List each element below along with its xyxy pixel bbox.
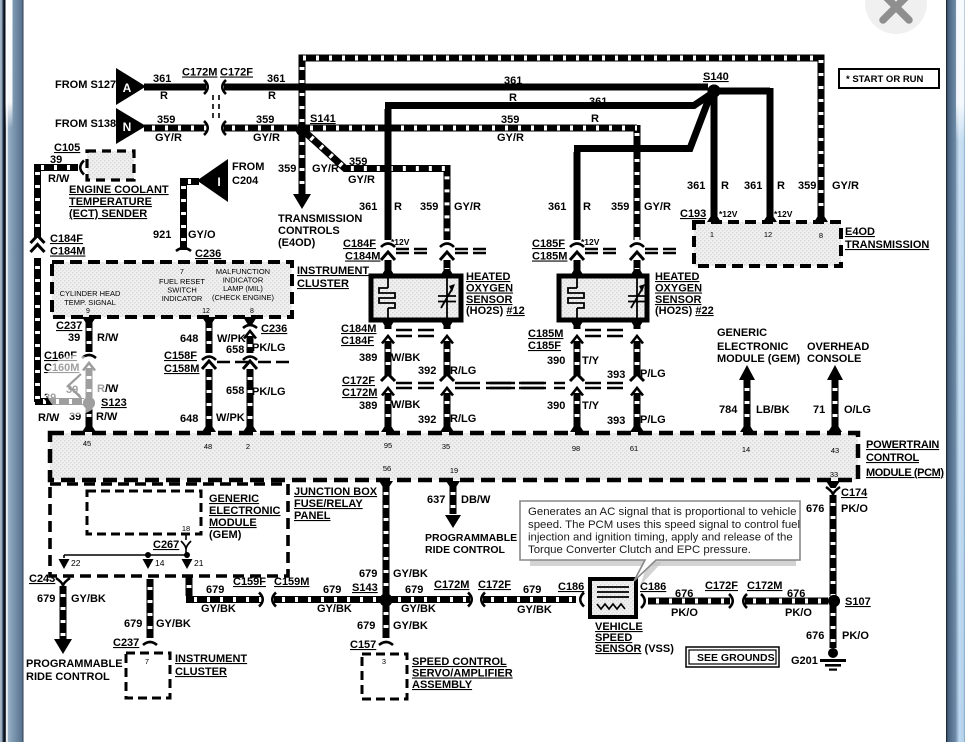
INSTRUMENT CLUSTER box — [52, 262, 292, 317]
svg-text:39: 39 — [50, 154, 62, 166]
svg-text:R: R — [591, 113, 599, 125]
svg-text:9: 9 — [86, 308, 90, 315]
wire 361 R from C172F to node S140 — [224, 84, 708, 91]
svg-text:C184M: C184M — [50, 246, 85, 258]
E4OD transmission connector flares — [707, 215, 721, 222]
close button — [865, 0, 927, 34]
svg-text:R: R — [721, 180, 729, 192]
svg-text:658: 658 — [226, 385, 244, 397]
arrow to pin 14 — [143, 559, 154, 569]
node S140 — [708, 85, 721, 98]
wire 637 DB/W from PCM pin 19 to programmable ride control — [446, 481, 460, 488]
svg-text:O/LG: O/LG — [844, 404, 871, 416]
svg-text:TRANSMISSION: TRANSMISSION — [845, 239, 929, 251]
svg-text:45: 45 — [83, 439, 91, 448]
svg-text:FUSE/RELAY: FUSE/RELAY — [294, 498, 363, 510]
connector C159F/C159M break — [259, 593, 263, 607]
connector C172M/C172F inline break (top) — [204, 80, 208, 94]
svg-text:C172M: C172M — [342, 387, 377, 399]
node S107 — [828, 595, 840, 607]
svg-text:R/W: R/W — [38, 412, 60, 424]
svg-text:R: R — [268, 90, 276, 102]
svg-text:361: 361 — [504, 75, 522, 87]
svg-text:CLUSTER: CLUSTER — [297, 278, 349, 290]
svg-text:R: R — [583, 201, 591, 213]
svg-text:FROM: FROM — [232, 161, 264, 173]
wire 658 PK/LG from C158M to PCM pin 2 — [247, 369, 254, 429]
svg-text:C237: C237 — [113, 637, 139, 649]
svg-text:Generates an AC signal that is: Generates an AC signal that is proportio… — [528, 506, 796, 518]
svg-text:R/W: R/W — [48, 173, 70, 185]
wire 679 GY/BK from junction box pin 21 to C159 break — [186, 577, 261, 600]
svg-text:I: I — [217, 175, 220, 189]
wire 679 GY/BK from S143 to C172 break — [390, 596, 470, 603]
svg-text:648: 648 — [180, 413, 198, 425]
svg-text:389: 389 — [359, 400, 377, 412]
svg-text:C236: C236 — [195, 248, 221, 260]
svg-text:S143: S143 — [352, 582, 378, 594]
svg-text:speed. The PCM uses this speed: speed. The PCM uses this speed signal to… — [528, 519, 800, 531]
svg-text:MODULE (GEM): MODULE (GEM) — [717, 353, 800, 365]
svg-text:GY/BK: GY/BK — [201, 603, 236, 615]
callout shadow — [530, 558, 796, 566]
svg-text:S141: S141 — [310, 113, 336, 125]
svg-text:C267: C267 — [153, 539, 179, 551]
svg-text:DB/W: DB/W — [461, 494, 491, 506]
svg-text:679: 679 — [124, 618, 142, 630]
connector C172F/C172M breaks on sensor 12 wires — [381, 374, 395, 381]
svg-text:C184M: C184M — [345, 251, 380, 263]
svg-text:FROM S138: FROM S138 — [55, 118, 116, 130]
svg-text:39: 39 — [68, 332, 80, 344]
POWERTRAIN CONTROL MODULE (PCM) box — [50, 433, 858, 480]
svg-text:*12V: *12V — [719, 209, 738, 219]
wire 676 PK/O from PCM pin 33 down to S107 — [826, 481, 840, 488]
svg-text:361: 361 — [359, 201, 377, 213]
svg-text:C158F: C158F — [164, 350, 197, 362]
svg-text:FROM S127: FROM S127 — [55, 79, 116, 91]
svg-text:676: 676 — [806, 630, 824, 642]
wire 921 GY/O from triangle I down to C236 — [184, 178, 200, 250]
wire 658 PK/LG from IC pin 8 through C236 break — [243, 317, 257, 324]
svg-text:359: 359 — [420, 201, 438, 213]
svg-text:390: 390 — [547, 400, 565, 412]
wire 390 T/Y and 393 P/LG lower segments to PCM — [574, 393, 581, 429]
svg-text:48: 48 — [204, 442, 212, 451]
svg-text:TEMPERATURE: TEMPERATURE — [69, 196, 152, 208]
watermark circle overlay — [45, 355, 105, 415]
svg-text:SPEED CONTROL: SPEED CONTROL — [412, 656, 507, 668]
svg-text:7: 7 — [180, 269, 184, 276]
connector C160F/C160M break — [82, 355, 96, 358]
connector C172 break on 359 wire — [204, 121, 208, 135]
svg-text:S140: S140 — [703, 71, 729, 83]
wire 679 GY/BK S143 down to C157 — [383, 604, 390, 638]
node S123 dot — [83, 397, 95, 409]
svg-text:GY/BK: GY/BK — [517, 604, 552, 616]
svg-text:GY/R: GY/R — [497, 132, 524, 144]
svg-text:921: 921 — [153, 229, 171, 241]
svg-text:679: 679 — [323, 584, 341, 596]
svg-text:GY/R: GY/R — [155, 132, 182, 144]
svg-text:JUNCTION BOX: JUNCTION BOX — [294, 486, 378, 498]
svg-text:679: 679 — [357, 620, 375, 632]
svg-text:679: 679 — [359, 568, 377, 580]
svg-text:C174: C174 — [841, 487, 868, 499]
svg-text:R/LG: R/LG — [450, 365, 476, 377]
svg-text:12: 12 — [202, 308, 210, 315]
svg-text:C159F: C159F — [233, 576, 266, 588]
svg-text:GY/R: GY/R — [312, 163, 339, 175]
svg-text:*12V: *12V — [774, 209, 793, 219]
svg-text:359: 359 — [278, 163, 296, 175]
connector C267 — [185, 534, 187, 540]
svg-text:PK/LG: PK/LG — [252, 386, 286, 398]
svg-text:GY/BK: GY/BK — [393, 620, 428, 632]
SEE GROUNDS legend box — [686, 647, 779, 667]
svg-text:14: 14 — [742, 445, 750, 454]
wire 361 R from S140 right then down to E4OD pin 12 — [717, 88, 770, 220]
svg-text:PANEL: PANEL — [294, 510, 331, 522]
svg-text:GY/BK: GY/BK — [71, 593, 106, 605]
connector C172F/C172M break (right) — [729, 594, 733, 608]
svg-text:679: 679 — [206, 584, 224, 596]
wire 679 GY/BK from C159M to node S143 — [274, 596, 381, 603]
svg-text:98: 98 — [572, 444, 580, 453]
svg-text:HEATED: HEATED — [655, 271, 699, 283]
wire 39 R/W from ECT sender left down (C105) — [38, 164, 79, 237]
svg-text:P/LG: P/LG — [640, 414, 666, 426]
svg-text:393: 393 — [607, 369, 625, 381]
svg-text:C184F: C184F — [50, 233, 83, 245]
svg-text:SENSOR (VSS): SENSOR (VSS) — [595, 643, 674, 655]
node S141 — [296, 124, 308, 136]
triangle connector I (FROM C204) — [197, 159, 228, 202]
svg-text:56: 56 — [383, 464, 391, 473]
svg-text:679: 679 — [523, 584, 541, 596]
wire 359 GY/R diagonal from S141 to HO2S12 branch — [305, 132, 447, 240]
svg-text:PROGRAMMABLE: PROGRAMMABLE — [425, 532, 517, 544]
svg-text:INSTRUMENT: INSTRUMENT — [297, 265, 369, 277]
node S107 dot — [828, 595, 840, 607]
svg-text:RIDE CONTROL: RIDE CONTROL — [425, 544, 506, 556]
thin bus wire inside junction box — [64, 549, 188, 558]
node S143 — [380, 594, 393, 607]
connector C185F/C185M breaks above HO2S22 — [570, 244, 616, 261]
svg-text:C204: C204 — [232, 175, 259, 187]
HO2S22 heater element symbol — [568, 278, 584, 318]
svg-text:OXYGEN: OXYGEN — [655, 283, 702, 295]
svg-text:R: R — [777, 180, 785, 192]
svg-text:PROGRAMMABLE: PROGRAMMABLE — [26, 658, 123, 670]
wire 359 GY/R from C172F through node S141 to corner x637 then down to C185 — [224, 125, 637, 240]
wire 359 GY/R from N to C172 break — [144, 125, 206, 132]
svg-text:Torque Converter Clutch and EP: Torque Converter Clutch and EPC pressure… — [528, 544, 751, 556]
svg-text:GY/R: GY/R — [454, 201, 481, 213]
svg-text:R/W: R/W — [97, 332, 119, 344]
START OR RUN legend box — [839, 69, 939, 88]
svg-text:T/Y: T/Y — [582, 400, 600, 412]
wire 361 R from A to C172 break — [144, 84, 206, 91]
svg-text:PK/O: PK/O — [841, 503, 868, 515]
svg-text:S123: S123 — [101, 397, 127, 409]
JUNCTION BOX FUSE/RELAY PANEL box — [50, 484, 288, 576]
svg-text:C159M: C159M — [274, 576, 309, 588]
svg-text:33: 33 — [830, 470, 838, 479]
connector C172 breaks on sensor 22 wires — [570, 374, 584, 381]
svg-text:ENGINE COOLANT: ENGINE COOLANT — [69, 184, 169, 196]
svg-text:GY/O: GY/O — [188, 229, 216, 241]
svg-text:W/BK: W/BK — [391, 399, 420, 411]
svg-text:GY/BK: GY/BK — [317, 603, 352, 615]
svg-text:(GEM): (GEM) — [209, 529, 242, 541]
ground G201 symbol — [828, 648, 838, 658]
wire 359 GY/R drop below S141 to transmission controls arrow — [299, 134, 306, 194]
svg-text:GY/BK: GY/BK — [401, 603, 436, 615]
HO2S12 sensor element symbol — [438, 278, 456, 318]
svg-text:GY/R: GY/R — [253, 132, 280, 144]
svg-text:658: 658 — [226, 344, 244, 356]
svg-text:TEMP. SIGNAL: TEMP. SIGNAL — [64, 298, 116, 307]
svg-text:21: 21 — [194, 558, 204, 568]
page right edge strip — [946, 0, 965, 742]
connector C243 — [56, 578, 70, 586]
svg-text:3: 3 — [382, 657, 386, 666]
svg-text:C186: C186 — [558, 581, 584, 593]
svg-text:8: 8 — [819, 231, 823, 240]
svg-text:*12V: *12V — [391, 237, 410, 247]
svg-text:G201: G201 — [791, 655, 818, 667]
svg-text:HEATED: HEATED — [466, 271, 510, 283]
svg-text:71: 71 — [813, 404, 825, 416]
svg-text:(CHECK ENGINE): (CHECK ENGINE) — [212, 293, 275, 302]
svg-text:359: 359 — [798, 180, 816, 192]
svg-text:359: 359 — [501, 114, 519, 126]
svg-text:P/LG: P/LG — [640, 368, 666, 380]
wire 679 GY/BK to instrument cluster pin 7 — [147, 579, 154, 638]
wire 389 W/BK and 392 R/LG upper segments — [385, 341, 392, 377]
svg-text:361: 361 — [687, 180, 705, 192]
wire 676 PK/O from C172M to node S107 — [745, 598, 828, 605]
svg-text:392: 392 — [418, 365, 436, 377]
svg-text:OVERHEAD: OVERHEAD — [807, 341, 869, 353]
svg-text:PK/LG: PK/LG — [252, 342, 286, 354]
svg-text:(HO2S) #22: (HO2S) #22 — [655, 305, 714, 317]
svg-text:95: 95 — [384, 441, 392, 450]
junction dots on bus — [145, 552, 151, 558]
svg-text:GENERIC: GENERIC — [717, 327, 767, 339]
svg-text:648: 648 — [180, 333, 198, 345]
wire 679 GY/BK to programmable ride control (left) — [60, 586, 67, 639]
svg-text:12: 12 — [764, 230, 772, 239]
wire 679 GY/BK from PCM pin 56 to S143 — [379, 481, 393, 488]
svg-text:OXYGEN: OXYGEN — [466, 283, 513, 295]
svg-text:C172F: C172F — [342, 375, 375, 387]
node S140 dot — [708, 85, 721, 98]
svg-text:C172M: C172M — [434, 579, 469, 591]
E4OD TRANSMISSION box — [694, 222, 841, 266]
wire 71 O/LG to overhead console — [827, 365, 843, 380]
vehicle speed sensor VSS box — [590, 579, 636, 617]
wire 784 LB/BK to GEM — [739, 365, 755, 380]
callout box with VSS description — [520, 501, 800, 581]
svg-text:361: 361 — [589, 96, 607, 108]
triangle connector A (FROM S127) — [116, 68, 146, 105]
svg-text:C185F: C185F — [528, 340, 561, 352]
arrow to pin 21 — [182, 559, 193, 569]
svg-text:676: 676 — [806, 503, 824, 515]
svg-text:(ECT) SENDER: (ECT) SENDER — [69, 208, 147, 220]
svg-text:(HO2S) #12: (HO2S) #12 — [466, 305, 525, 317]
svg-text:T/Y: T/Y — [582, 355, 600, 367]
svg-text:C172F: C172F — [220, 67, 253, 79]
svg-text:GY/R: GY/R — [832, 180, 859, 192]
svg-text:MODULE (PCM): MODULE (PCM) — [866, 467, 944, 479]
svg-text:MODULE: MODULE — [209, 517, 257, 529]
svg-text:INDICATOR: INDICATOR — [162, 294, 203, 303]
GEM inner box — [87, 491, 201, 534]
svg-text:POWERTRAIN: POWERTRAIN — [866, 439, 939, 451]
svg-text:TRANSMISSION: TRANSMISSION — [278, 213, 362, 225]
svg-text:676: 676 — [675, 588, 693, 600]
svg-text:C184F: C184F — [343, 238, 376, 250]
wire 361 R from S140 down to E4OD pin 1 — [711, 94, 718, 220]
svg-text:C157: C157 — [350, 639, 376, 651]
svg-text:PK/O: PK/O — [842, 630, 869, 642]
wire 389 W/BK and 392 R/LG lower segments to PCM — [385, 393, 392, 429]
svg-text:* START OR RUN: * START OR RUN — [846, 74, 924, 85]
node S123 — [83, 397, 95, 409]
svg-text:389: 389 — [359, 352, 377, 364]
svg-text:*12V: *12V — [581, 237, 600, 247]
svg-text:SERVO/AMPLIFIER: SERVO/AMPLIFIER — [412, 668, 513, 680]
svg-text:C243: C243 — [29, 573, 55, 585]
svg-text:C185M: C185M — [528, 328, 563, 340]
svg-text:C172F: C172F — [478, 579, 511, 591]
svg-text:SEE GROUNDS: SEE GROUNDS — [697, 652, 775, 664]
svg-text:390: 390 — [547, 355, 565, 367]
svg-text:injection and ignition timing,: injection and ignition timing, apply and… — [528, 532, 793, 544]
svg-text:61: 61 — [630, 444, 638, 453]
svg-text:2: 2 — [246, 442, 250, 451]
svg-text:359: 359 — [349, 156, 367, 168]
arrow to pin 22 — [59, 559, 70, 569]
node S141 dot — [296, 124, 308, 136]
svg-text:C172F: C172F — [705, 580, 738, 592]
svg-text:ELECTRONIC: ELECTRONIC — [209, 505, 281, 517]
wire 39 R/W from IC pin 9 to C160 break — [82, 317, 96, 324]
svg-text:A: A — [123, 81, 132, 95]
svg-text:C105: C105 — [54, 142, 80, 154]
HO2S22 sensor element symbol — [628, 278, 646, 318]
instrument cluster small box — [126, 653, 170, 698]
svg-text:C172M: C172M — [747, 580, 782, 592]
wire stubs into HO2S22 top — [574, 260, 581, 274]
svg-text:R/LG: R/LG — [450, 413, 476, 425]
svg-text:R/W: R/W — [96, 411, 118, 423]
wire 39 R/W from C160M to node S123 — [83, 363, 95, 371]
wires below HO2S22 and C185M/C185F breaks — [570, 320, 584, 327]
svg-text:14: 14 — [155, 558, 165, 568]
svg-text:E4OD: E4OD — [845, 226, 875, 238]
svg-text:W/BK: W/BK — [391, 352, 420, 364]
svg-text:637: 637 — [427, 494, 445, 506]
wire 648 W/PK from IC pin 12 to C158 break — [202, 317, 216, 324]
svg-text:C237: C237 — [56, 320, 82, 332]
svg-text:GY/R: GY/R — [644, 201, 671, 213]
svg-text:C186: C186 — [640, 581, 666, 593]
connector C172M/C172F break (bottom) — [468, 593, 472, 607]
svg-text:C158M: C158M — [164, 363, 199, 375]
connector C158F/C158M break on 648 wire — [202, 357, 248, 370]
node S143 dot — [380, 594, 393, 607]
svg-text:RIDE CONTROL: RIDE CONTROL — [26, 671, 110, 683]
svg-text:N: N — [123, 120, 132, 134]
wire 361 R branch to HO2S22 (corner x577 y148 to S140) — [574, 96, 710, 240]
svg-text:CYLINDER HEAD: CYLINDER HEAD — [60, 289, 121, 298]
HO2S12 heater element symbol — [379, 278, 395, 318]
svg-text:ASSEMBLY: ASSEMBLY — [412, 679, 473, 691]
svg-text:361: 361 — [548, 201, 566, 213]
svg-text:GENERIC: GENERIC — [209, 493, 259, 505]
ENGINE COOLANT TEMPERATURE (ECT) SENDER box — [87, 151, 134, 180]
svg-text:R: R — [394, 201, 402, 213]
wires below HO2S12 and C184M/C184F breaks — [381, 320, 395, 327]
svg-text:LB/BK: LB/BK — [756, 404, 790, 416]
heated oxygen sensor HO2S12 box — [371, 276, 461, 320]
heated oxygen sensor HO2S22 box — [559, 276, 647, 320]
svg-text:(E4OD): (E4OD) — [278, 237, 316, 249]
wire 679 GY/BK from C172F to VSS — [483, 596, 576, 603]
wire 359 GY/R riser S141 up then top run right to E4OD pin 8 drop — [302, 58, 821, 220]
svg-text:18: 18 — [182, 524, 190, 533]
connector C184F/C184M break on 39 R/W wire — [31, 236, 45, 253]
svg-text:7: 7 — [145, 657, 149, 666]
svg-text:CONTROLS: CONTROLS — [278, 225, 340, 237]
wire 648 W/PK from C158M to PCM pin 48 — [206, 369, 213, 429]
page left edge strip — [0, 0, 24, 742]
svg-text:ELECTRONIC: ELECTRONIC — [717, 341, 789, 353]
svg-text:C185F: C185F — [532, 238, 565, 250]
svg-text:784: 784 — [719, 404, 738, 416]
svg-text:GY/R: GY/R — [348, 174, 375, 186]
svg-text:361: 361 — [153, 73, 171, 85]
svg-text:C172M: C172M — [182, 67, 217, 79]
svg-text:359: 359 — [611, 201, 629, 213]
arrow to TRANSMISSION CONTROLS (E4OD) — [293, 194, 311, 209]
wire 39 R/W continues down to S123 corner — [35, 258, 84, 402]
svg-text:359: 359 — [256, 114, 274, 126]
wire 676 PK/O from S107 down to ground G201 — [830, 605, 837, 648]
svg-text:C184F: C184F — [341, 335, 374, 347]
svg-text:GY/BK: GY/BK — [156, 618, 191, 630]
wire 39 R/W from S123 to PCM pin 45 — [86, 406, 93, 429]
svg-text:C184M: C184M — [341, 323, 376, 335]
svg-text:PK/O: PK/O — [785, 607, 812, 619]
svg-text:392: 392 — [418, 414, 436, 426]
connector C158 break on 658 wire — [243, 357, 289, 370]
svg-text:C185M: C185M — [532, 251, 567, 263]
svg-text:43: 43 — [831, 446, 839, 455]
svg-text:393: 393 — [607, 415, 625, 427]
svg-text:359: 359 — [157, 114, 175, 126]
svg-text:C236: C236 — [261, 323, 287, 335]
svg-text:CONSOLE: CONSOLE — [807, 353, 861, 365]
svg-text:679: 679 — [405, 584, 423, 596]
svg-text:35: 35 — [442, 442, 450, 451]
svg-text:19: 19 — [450, 466, 458, 475]
svg-text:S107: S107 — [845, 596, 871, 608]
